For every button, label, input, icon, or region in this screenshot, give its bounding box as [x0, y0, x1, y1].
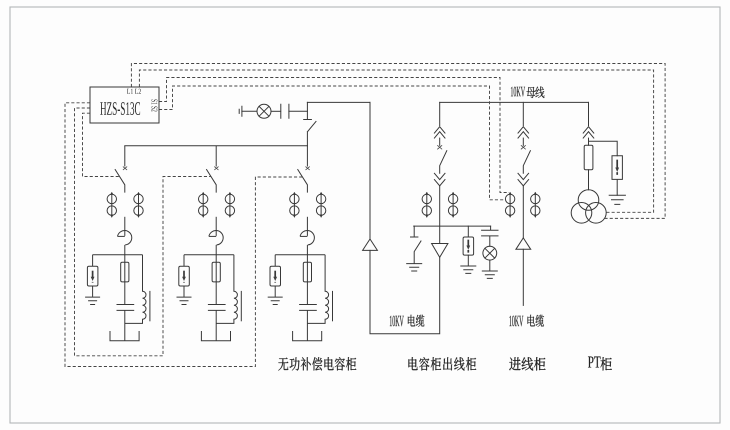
PT fuse [584, 145, 593, 170]
label PT cabinet [588, 357, 612, 371]
wire: lamp-branch horizontal to cable riser [307, 101, 370, 103]
CT pair right [531, 193, 540, 218]
wire: PT feeder drop [588, 102, 590, 125]
indicator lamp [257, 104, 271, 118]
ground [407, 264, 422, 271]
wire through CT section [439, 186, 441, 244]
wire: 10KV cable U-path [370, 250, 440, 333]
withdrawable contact (down chevrons) [434, 173, 445, 186]
wire [439, 138, 441, 145]
label 10KV cable (incoming) [509, 315, 544, 327]
dashed control to branch 2 switch [75, 108, 212, 356]
wire [489, 260, 491, 271]
capacitor branch 1 [85, 146, 150, 341]
wire [522, 138, 524, 145]
dashed control to branch 3 switch [65, 103, 302, 367]
label 10KV busbar [511, 87, 544, 98]
wire [289, 110, 308, 112]
breaker blade [440, 151, 447, 174]
wire through CT section [522, 186, 524, 238]
wire: outgoing feeder drop [439, 102, 441, 125]
label incoming cabinet [509, 357, 545, 370]
dashed control to branch 1 switch [83, 113, 120, 176]
withdrawable contact (up chevrons) [434, 127, 445, 138]
CT pair left [422, 193, 431, 218]
ground [461, 266, 476, 273]
live-display lamp [483, 246, 497, 260]
label reactive power compensation capacitor cabinet [278, 357, 356, 370]
wire: capacitor section bus [125, 145, 308, 147]
wire: cable-compartment bar [414, 225, 491, 227]
breaker fixed contact x [521, 146, 525, 149]
dashed rail S1 from controller to incoming CT [159, 78, 509, 193]
breaker fixed contact x [438, 146, 442, 149]
wire: incoming feeder drop [522, 102, 524, 125]
CT pair left [505, 193, 514, 218]
surge arrester [467, 226, 469, 237]
ground [609, 195, 625, 204]
dashed rail S2 from controller to incoming CT [159, 86, 505, 200]
PT winding circles [578, 190, 599, 211]
label 10KV cable (outgoing) [390, 315, 425, 327]
CT pair right [448, 193, 457, 218]
wire [588, 138, 590, 190]
dashed rail L2 from controller top to PT [139, 70, 653, 212]
withdrawable contact (up chevrons) [583, 127, 594, 138]
wire [242, 110, 257, 112]
wire: cable riser from capacitor bus [369, 102, 371, 239]
wire: cable stub [522, 249, 524, 305]
cable head (down triangle) [432, 244, 448, 258]
ground [482, 271, 497, 278]
capacitor (series) [281, 104, 289, 118]
earthing switch [411, 226, 422, 263]
withdrawable contact (down chevrons) [518, 173, 529, 186]
cable terminal (up triangle) [516, 238, 531, 249]
wire to PT arrester [589, 141, 618, 156]
ground (rotated) for voltage indicator [239, 106, 242, 116]
capacitor branch 3 [268, 146, 333, 341]
surge arrester [612, 156, 622, 196]
cable terminal (up triangle) [363, 239, 378, 250]
disconnect switch for lamp branch [304, 102, 316, 145]
wire: 10KV busbar [440, 101, 589, 103]
live-display capacitor [482, 226, 498, 246]
withdrawable contact (up chevrons) [518, 127, 529, 138]
controller HZS-S13C [90, 87, 159, 123]
breaker blade [523, 151, 530, 174]
wire [271, 110, 281, 112]
dashed rail L1 from controller top to PT [131, 64, 665, 219]
capacitor branch 2 [177, 146, 242, 341]
label capacitor outgoing cabinet [408, 357, 476, 370]
